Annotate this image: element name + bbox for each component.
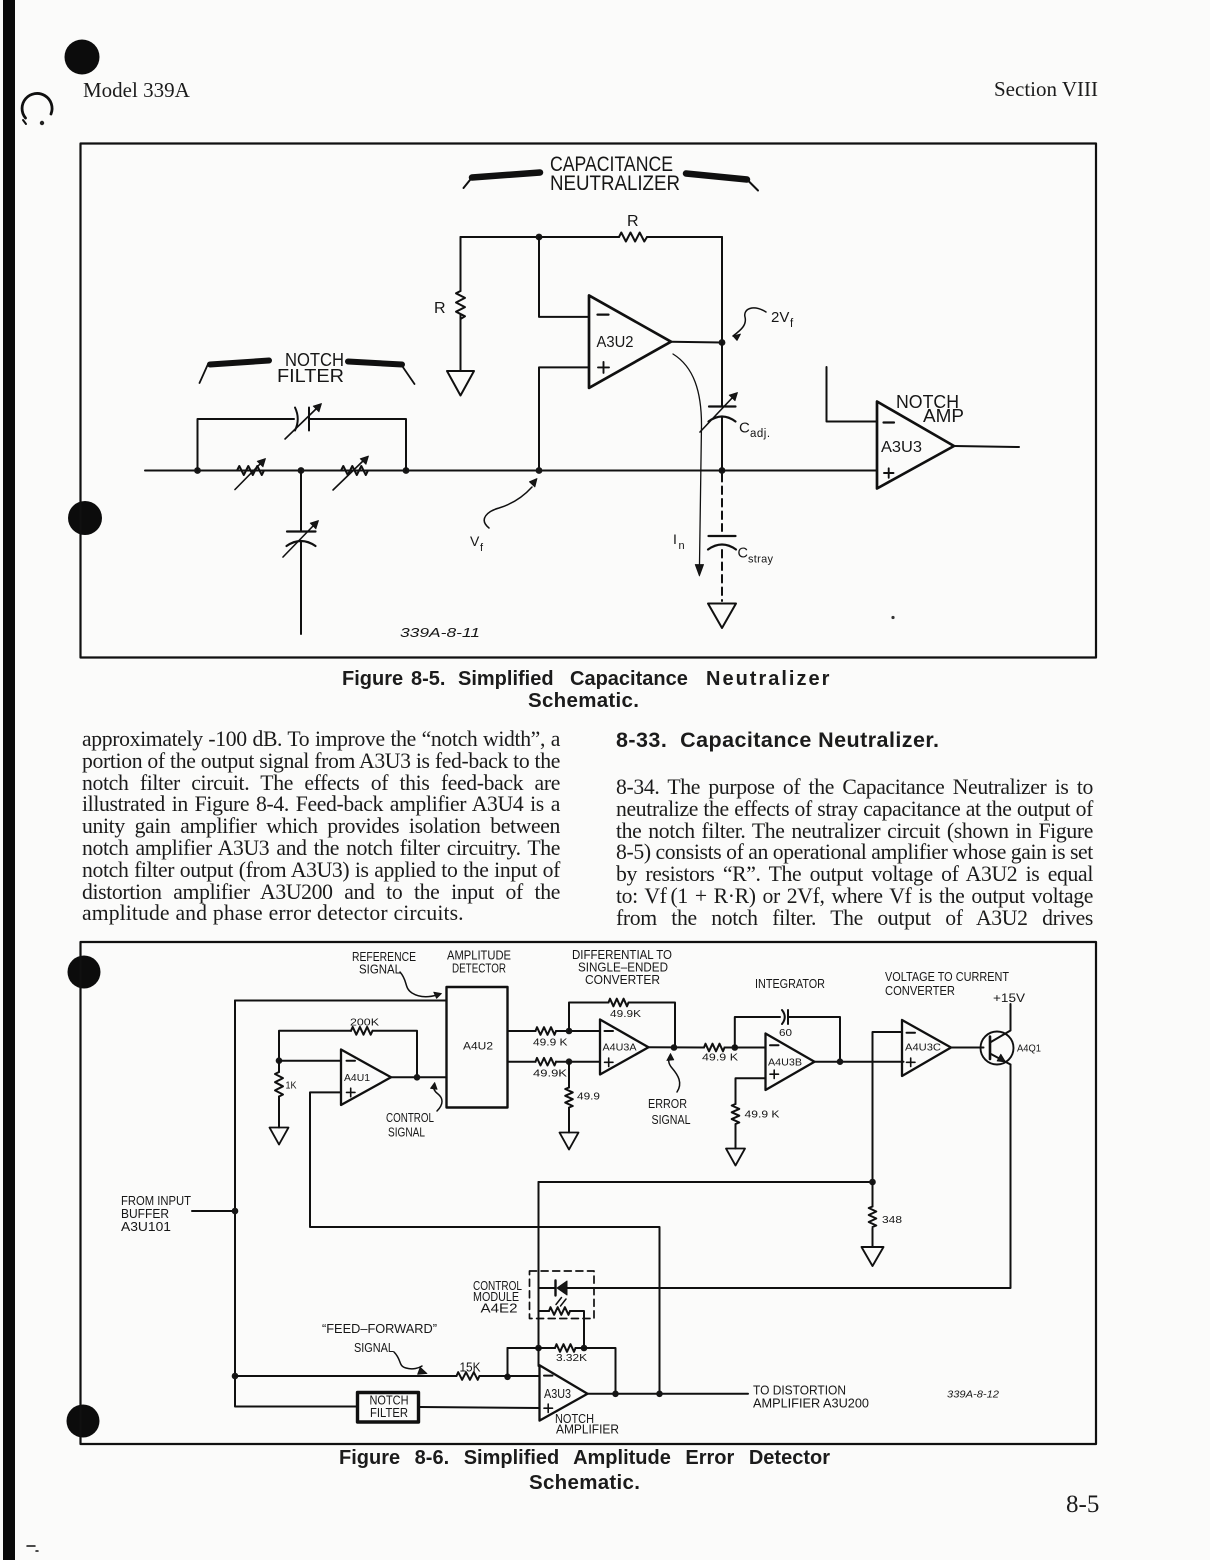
notch filter title right bar bbox=[348, 362, 415, 385]
node: center tap bbox=[298, 467, 305, 474]
wire: A4U3C minus input from 1182 rail bbox=[873, 1032, 903, 1182]
svg-text:adj.: adj. bbox=[750, 428, 771, 440]
op-amp A4U3C bbox=[902, 1020, 951, 1076]
wire: reference signal rail bbox=[235, 1000, 447, 1002]
resistor R (feedback) bbox=[619, 233, 647, 242]
svg-text:f: f bbox=[790, 318, 794, 330]
svg-text:SIGNAL: SIGNAL bbox=[354, 1341, 394, 1355]
label A4U3A bbox=[603, 1042, 637, 1054]
svg-text:+15V: +15V bbox=[993, 991, 1025, 1005]
label FEED-FORWARD SIGNAL bbox=[322, 1322, 437, 1355]
svg-text:348: 348 bbox=[882, 1214, 902, 1226]
node: A3U2 plus tap bbox=[536, 467, 543, 474]
label TO DISTORTION AMPLIFIER A3U200 bbox=[753, 1384, 869, 1411]
wire: photoresistor left leg down bbox=[538, 1311, 540, 1348]
label CONTROL MODULE A4E2 bbox=[473, 1279, 522, 1316]
op-amp A4U1 bbox=[341, 1050, 391, 1106]
label NOTCH AMP bbox=[896, 392, 964, 426]
svg-text:3.32K: 3.32K bbox=[556, 1352, 587, 1364]
svg-text:A4U2: A4U2 bbox=[463, 1041, 493, 1053]
op-amp A3U3 (notch amplifier) bbox=[540, 1365, 588, 1420]
svg-text:49.9 K: 49.9 K bbox=[702, 1052, 738, 1064]
svg-text:A4U3A: A4U3A bbox=[603, 1042, 637, 1054]
rail 1182 bbox=[539, 1181, 873, 1183]
svg-text:1K: 1K bbox=[286, 1080, 297, 1092]
ground (input R) bbox=[447, 371, 474, 396]
node: A4U3B output bbox=[837, 1058, 844, 1065]
resistor R (input) bbox=[456, 291, 465, 319]
svg-text:49.9K: 49.9K bbox=[533, 1068, 567, 1080]
svg-text:A4E2: A4E2 bbox=[481, 1302, 518, 1316]
wire: left branch down bbox=[460, 237, 462, 291]
node: bridge right bbox=[403, 467, 410, 474]
punch hole dot 4 bbox=[67, 1405, 100, 1438]
wire: R to ground bbox=[460, 315, 462, 372]
pointer squiggle 2Vf bbox=[733, 308, 766, 341]
wire: bridge top bbox=[198, 419, 407, 471]
capacitor Cadj bbox=[709, 407, 736, 471]
wire: A4U3B plus input bbox=[736, 1078, 766, 1104]
resistor 200K bbox=[279, 1027, 417, 1077]
resistor 49.9K (to integrator) bbox=[704, 1044, 735, 1052]
pointer squiggle reference signal bbox=[400, 972, 442, 998]
svg-text:60: 60 bbox=[779, 1027, 792, 1039]
pointer squiggle Vf bbox=[484, 479, 537, 529]
wire: feedback top rail bbox=[461, 236, 723, 238]
node: A4U1 output bbox=[414, 1074, 421, 1081]
block NOTCH FILTER bbox=[358, 1393, 419, 1423]
label A3U3 (fig 8-6) bbox=[544, 1386, 571, 1401]
svg-text:FILTER: FILTER bbox=[370, 1406, 408, 1420]
svg-text:AMP: AMP bbox=[923, 406, 964, 426]
node: 3.32K output junction bbox=[612, 1391, 619, 1398]
pointer squiggle error signal bbox=[667, 1054, 680, 1093]
svg-text:A4U3C: A4U3C bbox=[905, 1042, 941, 1054]
page number bbox=[1066, 1491, 1099, 1519]
svg-text:339A-8-12: 339A-8-12 bbox=[947, 1389, 999, 1401]
node: bridge left bbox=[194, 467, 201, 474]
label A4U2 bbox=[463, 1041, 493, 1053]
label R (input) bbox=[434, 300, 446, 317]
wire: from input buffer bbox=[192, 1210, 235, 1212]
optocoupler marks bbox=[556, 1298, 566, 1307]
label 200K bbox=[350, 1017, 379, 1029]
label +15V bbox=[993, 991, 1025, 1005]
svg-text:A4U3B: A4U3B bbox=[768, 1057, 802, 1069]
label REFERENCE SIGNAL bbox=[352, 950, 416, 977]
svg-text:A3U101: A3U101 bbox=[121, 1220, 171, 1234]
svg-text:FROM INPUT: FROM INPUT bbox=[121, 1194, 191, 1208]
resistor 49.9K (top output) bbox=[508, 1027, 601, 1035]
node: A4U3A minus junction bbox=[566, 1028, 573, 1035]
node: main line / Cadj junction bbox=[719, 467, 726, 474]
svg-text:CONTROL: CONTROL bbox=[386, 1111, 434, 1125]
op-amp A3U2 bbox=[589, 295, 671, 388]
op-amp A3U3 (notch amp) bbox=[877, 402, 954, 489]
svg-text:AMPLIFIER A3U200: AMPLIFIER A3U200 bbox=[753, 1397, 869, 1411]
ground (Cstray) bbox=[708, 604, 736, 629]
node: rail to minus junction bbox=[536, 234, 543, 241]
svg-text:A4Q1: A4Q1 bbox=[1017, 1043, 1041, 1055]
wire: A3U3 output bbox=[954, 446, 1019, 447]
wire: A3U3 minus stub bbox=[827, 367, 878, 422]
svg-text:FILTER: FILTER bbox=[277, 366, 344, 386]
speck bbox=[891, 616, 894, 619]
ground (A4U3B plus) bbox=[726, 1149, 745, 1166]
label DIFFERENTIAL TO SINGLE-ENDED CONVERTER bbox=[572, 948, 672, 987]
svg-text:49.9: 49.9 bbox=[577, 1091, 600, 1103]
wire: A4U1 minus input bbox=[279, 1060, 341, 1062]
label A4U1 bbox=[344, 1072, 370, 1084]
LED (A4E2) bbox=[539, 1281, 568, 1296]
node: 348 junction bbox=[869, 1179, 876, 1186]
wire: 3.32K left leg to minus input bbox=[507, 1348, 509, 1377]
wire: A4U3B minus input bbox=[735, 1047, 766, 1049]
label 348 bbox=[882, 1214, 902, 1226]
node: minus input junction bbox=[504, 1374, 511, 1381]
label 49.9K plus bbox=[745, 1109, 780, 1121]
node: input bus / buffer bbox=[232, 1208, 239, 1215]
title left bar bbox=[464, 173, 541, 189]
label Cstray bbox=[738, 546, 774, 566]
current arrow In bbox=[673, 354, 704, 576]
dashed control module box bbox=[530, 1271, 595, 1319]
wire: dashed Cstray to ground bbox=[721, 550, 723, 601]
figure 8-5 caption bbox=[342, 667, 828, 669]
svg-text:AMPLITUDE: AMPLITUDE bbox=[447, 949, 511, 963]
label A3U3 bbox=[881, 439, 922, 456]
ground (1K) bbox=[270, 1128, 289, 1145]
svg-text:CONVERTER: CONVERTER bbox=[885, 984, 955, 998]
svg-text:SIGNAL: SIGNAL bbox=[388, 1126, 425, 1140]
punch hole dot 3 bbox=[68, 956, 101, 989]
node: 3.32K right bbox=[581, 1345, 588, 1352]
wire: plus input bbox=[539, 367, 589, 470]
notch filter title left bar bbox=[200, 361, 270, 384]
label NOTCH FILTER (box) bbox=[370, 1394, 409, 1421]
svg-text:DETECTOR: DETECTOR bbox=[452, 962, 506, 976]
label CONTROL SIGNAL bbox=[386, 1111, 434, 1140]
svg-text:2V: 2V bbox=[771, 309, 789, 326]
label In bbox=[673, 531, 685, 552]
node: feedback output junction bbox=[656, 1391, 663, 1398]
svg-text:A3U3: A3U3 bbox=[881, 439, 922, 456]
header left bbox=[83, 78, 190, 103]
punch hole dot 1 bbox=[65, 40, 100, 75]
svg-text:f: f bbox=[480, 542, 484, 554]
svg-text:ERROR: ERROR bbox=[648, 1097, 687, 1111]
label R (feedback) bbox=[627, 213, 639, 230]
node: A4U3A plus junction bbox=[566, 1058, 573, 1065]
photoresistor (A4E2) bbox=[539, 1288, 585, 1348]
left text column bbox=[82, 729, 560, 925]
main signal wire bbox=[145, 470, 877, 472]
left binding bar bbox=[3, 0, 15, 1560]
svg-text:I: I bbox=[673, 531, 677, 547]
label A4U3B bbox=[768, 1057, 802, 1069]
svg-text:V: V bbox=[470, 533, 480, 549]
label A3U2 bbox=[597, 334, 634, 351]
variable capacitor (bridge) bbox=[295, 408, 309, 431]
label NOTCH FILTER bbox=[277, 350, 344, 386]
resistor 3.32K bbox=[508, 1344, 616, 1393]
wire: A4U3A output bbox=[649, 1046, 705, 1048]
block A4U2 bbox=[447, 987, 508, 1108]
figure 8-6 caption bbox=[339, 1447, 830, 1470]
resistor 49.9K (A4U3A feedback) bbox=[569, 999, 675, 1048]
title CAPACITANCE NEUTRALIZER bbox=[550, 153, 680, 195]
svg-text:CONVERTER: CONVERTER bbox=[585, 973, 660, 987]
svg-text:A3U3: A3U3 bbox=[544, 1386, 571, 1401]
pointer squiggle feed-forward bbox=[394, 1352, 427, 1374]
node: 3.32K left bbox=[535, 1345, 542, 1352]
wire: output to Cadj bbox=[721, 343, 723, 407]
heading 8-33 bbox=[616, 728, 939, 753]
label Vf bbox=[470, 533, 484, 554]
wire: left input bus bbox=[235, 1001, 357, 1407]
Cadj variable arrow bbox=[700, 393, 738, 433]
label 49.9 bbox=[577, 1091, 600, 1103]
pointer squiggle control signal bbox=[431, 1083, 443, 1112]
label VOLTAGE TO CURRENT CONVERTER bbox=[885, 970, 1009, 998]
wire: notch filter to A3U3 plus bbox=[420, 1407, 540, 1408]
header right bbox=[994, 77, 1098, 102]
label Cadj bbox=[739, 420, 771, 441]
node: output junction bbox=[719, 339, 726, 346]
center capacitor variable arrow bbox=[283, 521, 319, 558]
resistor 348 bbox=[869, 1182, 877, 1247]
svg-text:NEUTRALIZER: NEUTRALIZER bbox=[550, 172, 680, 195]
label 49.9K feedback bbox=[610, 1008, 641, 1020]
svg-text:SIGNAL: SIGNAL bbox=[652, 1113, 691, 1127]
wire: A4U1 output bbox=[391, 1076, 447, 1078]
svg-text:TO DISTORTION: TO DISTORTION bbox=[753, 1384, 846, 1398]
label 3.32K bbox=[556, 1352, 587, 1364]
label 60 bbox=[779, 1027, 792, 1039]
transistor A4Q1 bbox=[981, 1004, 1014, 1065]
bridge capacitor variable arrow bbox=[285, 404, 322, 440]
variable resistor 2 bbox=[341, 466, 368, 475]
label 2Vf bbox=[771, 309, 794, 330]
wire: A4U3C output bbox=[951, 1047, 984, 1049]
resistor 1K bbox=[275, 1061, 283, 1128]
label 15K bbox=[460, 1360, 481, 1375]
figure 8-6 border box bbox=[81, 942, 1097, 1444]
svg-text:339A-8-11: 339A-8-11 bbox=[400, 625, 480, 640]
figure 8-5 border box bbox=[81, 144, 1097, 658]
wire: LED cathode up to rail bbox=[538, 1182, 540, 1288]
wire: A3U3 output to distortion amp bbox=[588, 1393, 749, 1395]
label ERROR SIGNAL bbox=[648, 1097, 691, 1127]
ground (49.9) bbox=[560, 1133, 579, 1150]
svg-text:stray: stray bbox=[748, 554, 774, 566]
variable resistor 1 bbox=[237, 466, 264, 475]
svg-text:n: n bbox=[679, 540, 685, 552]
svg-text:“FEED–FORWARD”: “FEED–FORWARD” bbox=[322, 1322, 437, 1336]
svg-text:200K: 200K bbox=[350, 1017, 379, 1029]
resistor 49.9K (bottom output) bbox=[508, 1058, 601, 1066]
svg-text:15K: 15K bbox=[460, 1360, 481, 1375]
op-amp A4U3B bbox=[766, 1034, 815, 1091]
wire: center tap down bbox=[300, 471, 302, 532]
wire: right feedback drop bbox=[721, 237, 723, 343]
label A4U3C bbox=[905, 1042, 941, 1054]
ground (348) bbox=[862, 1247, 884, 1266]
punch hole outline top-left bbox=[22, 93, 52, 125]
svg-text:R: R bbox=[434, 300, 446, 317]
label INTEGRATOR bbox=[755, 977, 825, 991]
variable resistor 1 arrow bbox=[235, 459, 266, 490]
node: feed-forward tap bbox=[232, 1373, 239, 1380]
node: A4U3B minus junction bbox=[732, 1044, 739, 1051]
label FROM INPUT BUFFER A3U101 bbox=[121, 1194, 191, 1234]
capacitor Cstray bbox=[708, 536, 736, 550]
title right bar bbox=[686, 174, 758, 191]
resistor 49.9 shunt bbox=[565, 1062, 573, 1133]
variable resistor 2 arrow bbox=[333, 456, 369, 490]
label 1K bbox=[286, 1080, 297, 1092]
speck bottom left bbox=[27, 1546, 38, 1551]
svg-text:INTEGRATOR: INTEGRATOR bbox=[755, 977, 825, 991]
wire: minus input bbox=[539, 237, 589, 317]
svg-text:A3U2: A3U2 bbox=[597, 334, 634, 351]
svg-text:49.9 K: 49.9 K bbox=[745, 1109, 780, 1121]
wire: A3U2 output bbox=[671, 341, 722, 344]
wire: A4U3B output bbox=[815, 1061, 904, 1063]
label NOTCH AMPLIFIER bbox=[555, 1412, 619, 1437]
svg-text:VOLTAGE TO CURRENT: VOLTAGE TO CURRENT bbox=[885, 970, 1009, 984]
svg-text:BUFFER: BUFFER bbox=[121, 1207, 169, 1221]
svg-text:AMPLIFIER: AMPLIFIER bbox=[556, 1423, 619, 1437]
resistor 15K bbox=[235, 1372, 540, 1380]
capacitor 60 (integrator feedback) bbox=[735, 1010, 840, 1062]
svg-text:49.9K: 49.9K bbox=[610, 1008, 641, 1020]
label 339A-8-11 bbox=[400, 625, 480, 640]
variable capacitor (center) bbox=[287, 532, 316, 635]
svg-text:C: C bbox=[739, 420, 750, 437]
svg-text:R: R bbox=[627, 213, 639, 230]
wire: dashed to Cstray bbox=[721, 474, 723, 531]
label A4Q1 bbox=[1017, 1043, 1041, 1055]
resistor 49.9K (A4U3B plus) bbox=[732, 1104, 740, 1149]
wire: A4U1 plus input + feedback from A3U3 bbox=[310, 1092, 660, 1393]
svg-text:49.9 K: 49.9 K bbox=[533, 1037, 568, 1049]
node: error signal bbox=[671, 1044, 678, 1051]
wire: A3U3 top leg from control module bbox=[538, 1348, 540, 1366]
label AMPLITUDE DETECTOR bbox=[447, 949, 511, 976]
svg-text:C: C bbox=[738, 546, 748, 562]
label 49.9K bottom bbox=[533, 1068, 567, 1080]
label 49.9K top bbox=[533, 1037, 568, 1049]
label 339A-8-12 bbox=[947, 1389, 999, 1401]
label 49.9K integrator bbox=[702, 1052, 738, 1064]
wire: A4Q1 emitter to control module rail bbox=[567, 1065, 1011, 1289]
punch hole dot 2 bbox=[68, 501, 102, 535]
svg-text:SIGNAL: SIGNAL bbox=[359, 963, 401, 977]
op-amp A4U3A bbox=[600, 1020, 649, 1075]
svg-text:A4U1: A4U1 bbox=[344, 1072, 370, 1084]
right text column bbox=[616, 777, 1093, 930]
node: A4U1 minus junction bbox=[276, 1057, 283, 1064]
